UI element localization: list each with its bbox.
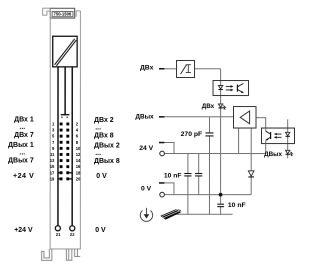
svg-text:270 pF: 270 pF — [181, 131, 203, 138]
svg-text:750-1506: 750-1506 — [54, 12, 72, 17]
svg-text:ДВх 1: ДВх 1 — [14, 116, 34, 123]
svg-text:18: 18 — [76, 170, 81, 175]
svg-text:ДВых 8: ДВых 8 — [94, 158, 120, 165]
svg-text:12: 12 — [76, 152, 81, 157]
svg-text:...: ... — [19, 124, 25, 131]
svg-text:ДВых: ДВых — [264, 151, 282, 158]
svg-text:...: ... — [95, 124, 101, 131]
svg-text:0 V: 0 V — [141, 186, 152, 193]
svg-text:16: 16 — [76, 164, 81, 169]
svg-text:ДВх 7: ДВх 7 — [14, 132, 34, 139]
svg-text:ДВых: ДВых — [135, 113, 154, 120]
svg-text:ДВх 2: ДВх 2 — [94, 117, 114, 124]
svg-text:ДВх 8: ДВх 8 — [94, 132, 114, 139]
svg-text:ДВых 1: ДВых 1 — [8, 142, 34, 149]
svg-text:21: 21 — [56, 232, 61, 237]
svg-text:19: 19 — [50, 176, 55, 181]
svg-text:11: 11 — [50, 152, 55, 157]
svg-text:...: ... — [19, 150, 25, 157]
svg-text:+24 V: +24 V — [13, 171, 34, 180]
svg-text:0 V: 0 V — [96, 173, 107, 180]
svg-text:20: 20 — [76, 176, 81, 181]
svg-text:13: 13 — [50, 158, 55, 163]
svg-text:10: 10 — [76, 146, 81, 151]
svg-text:24 V: 24 V — [139, 145, 153, 152]
svg-text:10 nF: 10 nF — [164, 172, 182, 179]
svg-text:10 nF: 10 nF — [228, 202, 246, 209]
svg-text:...: ... — [95, 150, 101, 157]
svg-text:ДВых 7: ДВых 7 — [8, 157, 34, 164]
svg-text:14: 14 — [76, 158, 81, 163]
svg-text:+24 V: +24 V — [14, 227, 33, 234]
svg-text:ДВх: ДВх — [140, 65, 154, 72]
svg-text:ДВх: ДВх — [202, 103, 215, 110]
svg-text:15: 15 — [50, 164, 55, 169]
svg-text:22: 22 — [70, 232, 75, 237]
svg-text:17: 17 — [50, 170, 55, 175]
svg-text:ДВых 2: ДВых 2 — [94, 142, 120, 149]
svg-text:0 V: 0 V — [95, 227, 106, 234]
